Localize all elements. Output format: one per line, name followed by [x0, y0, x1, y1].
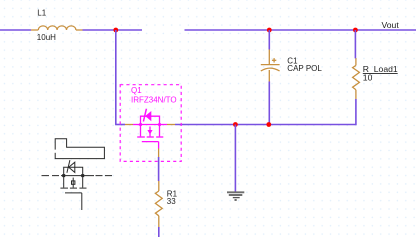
ground 0 symbol — [227, 125, 244, 201]
svg-text:Vout: Vout — [382, 20, 400, 30]
wire R_Load1 bottom to bottom rail — [175, 99, 356, 125]
svg-text:L1: L1 — [37, 8, 46, 17]
wire bottom-left to MOSFET drain — [115, 124, 125, 126]
transistor Q1 selection box (dashed) — [120, 85, 181, 162]
channel contact right — [159, 125, 161, 137]
svg-text:10uH: 10uH — [37, 33, 56, 42]
node junction top-left — [113, 28, 118, 33]
wire top middle (L1 to gap) — [83, 29, 143, 31]
body diode loop — [141, 116, 160, 124]
ghost label box gap — [54, 150, 56, 153]
wire R1 bottom to edge — [158, 227, 160, 237]
ghost pin dot drain — [62, 174, 65, 177]
svg-text:IRFZ34N/TO: IRFZ34N/TO — [131, 96, 177, 105]
ghost channel contact left — [63, 176, 65, 188]
wire top-left segment — [0, 29, 31, 31]
node junction at C1 top — [267, 28, 272, 33]
svg-text:CAP POL: CAP POL — [287, 64, 322, 73]
node junction at R_Load1 top — [353, 28, 358, 33]
pin stub tan left of Q1 — [125, 124, 133, 126]
ghost move-preview: label outline boxes — [55, 139, 104, 159]
pin dot source — [158, 123, 161, 126]
capacitor C1 — [261, 30, 280, 125]
ghost rail — [61, 175, 94, 177]
inductor L1 — [31, 26, 83, 30]
ghost channel bars — [60, 187, 68, 189]
pin dot drain — [139, 123, 142, 126]
ghost gate bar — [65, 192, 82, 194]
ghost channel contact right — [82, 176, 84, 188]
resistor R1 — [155, 181, 162, 227]
wire vertical from top junction down — [115, 30, 117, 125]
gate pin lead (magenta part) — [158, 142, 160, 149]
body diode cathode bar — [143, 109, 146, 122]
ghost rubberband wire left (dashed) — [42, 175, 60, 177]
pin drain lead — [133, 124, 141, 126]
channel bar left — [137, 136, 145, 138]
ghost transistor outline (drag preview) — [42, 160, 113, 210]
channel bar middle — [147, 136, 154, 138]
pin source lead — [160, 124, 168, 126]
ghost substrate stub + open arrow — [72, 178, 74, 188]
ghost diode triangle — [69, 162, 75, 172]
body diode triangle — [145, 111, 151, 121]
wire top right segment — [185, 29, 416, 31]
channel contact left — [140, 125, 142, 137]
ghost diode cathode bar — [67, 160, 70, 173]
wire gate to R1 — [158, 157, 160, 181]
gate bar — [142, 141, 159, 143]
channel bar right — [156, 136, 163, 138]
ghost body diode loop — [64, 167, 83, 175]
ghost gate pin lead — [81, 193, 83, 210]
ghost pin dot source — [81, 174, 84, 177]
svg-text:Q1: Q1 — [131, 86, 142, 95]
pin stub tan gate of Q1 — [158, 149, 160, 158]
node junction C1 bottom rail — [266, 122, 271, 127]
resistor R_Load1 — [353, 58, 360, 99]
svg-text:10: 10 — [363, 73, 373, 83]
substrate stub + arrow — [149, 127, 151, 137]
node junction ground on bottom rail — [233, 122, 238, 127]
rail through body — [141, 124, 160, 126]
transistor Q1 (IRFZ34N, selected magenta) — [133, 109, 167, 149]
svg-text:33: 33 — [167, 197, 176, 206]
ghost rubberband wire right (dashed) — [96, 175, 113, 177]
pin stub tan right of Q1 — [167, 124, 175, 126]
